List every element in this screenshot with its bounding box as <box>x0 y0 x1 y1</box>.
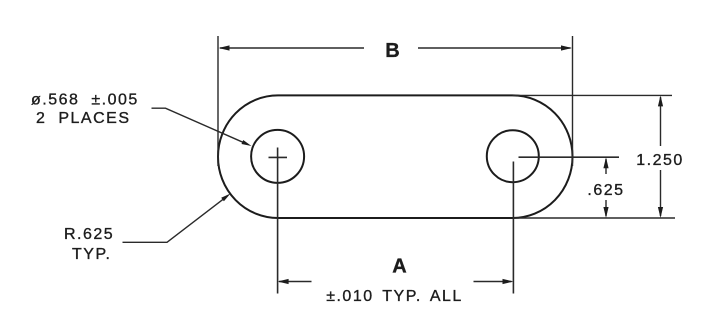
arrowhead leader radius <box>221 194 230 202</box>
hole right <box>487 130 539 182</box>
arrowhead B right <box>561 45 572 50</box>
svg-text:ø.568 ±.005: ø.568 ±.005 <box>31 92 139 109</box>
arrowhead 1.250 bottom <box>658 207 663 218</box>
left hole centerline horizontal <box>269 156 288 158</box>
dimension line B right segment <box>418 47 571 49</box>
svg-text:TYP.: TYP. <box>72 246 112 263</box>
arrowhead .625 top <box>603 157 608 168</box>
svg-text:1.250: 1.250 <box>636 152 684 169</box>
dimension line 1.250 upper segment <box>660 97 662 146</box>
svg-text:A: A <box>392 256 406 278</box>
arrowhead 1.250 top <box>658 95 663 106</box>
dimension line .625 upper segment <box>605 159 607 174</box>
arrowhead A right <box>503 279 514 284</box>
extension line bottom edge to 1.250 <box>513 217 676 219</box>
arrowhead B left <box>219 45 230 50</box>
arrowhead .625 bottom <box>603 207 608 218</box>
left hole centerline vertical <box>277 148 279 294</box>
dimension line A right segment <box>474 281 512 283</box>
leader radius label <box>123 197 227 242</box>
extension line top edge to 1.250 <box>513 94 673 96</box>
leader diameter label <box>152 108 244 142</box>
svg-text:B: B <box>385 40 399 62</box>
svg-text:±.010 TYP. ALL: ±.010 TYP. ALL <box>326 288 463 305</box>
right hole centerline vertical <box>512 162 514 294</box>
dimension line 1.250 lower segment <box>660 170 662 216</box>
arrowhead A left <box>278 279 289 284</box>
dimension line .625 lower segment <box>605 200 607 216</box>
arrowhead leader diameter <box>242 140 252 146</box>
plate outline <box>218 95 573 218</box>
dimension line A left segment <box>279 281 312 283</box>
dimension line B left segment <box>220 47 364 49</box>
right hole centerline horizontal <box>519 156 620 158</box>
hole left <box>251 130 304 183</box>
svg-text:2 PLACES: 2 PLACES <box>36 110 130 127</box>
extension line B left <box>217 36 219 166</box>
svg-text:R.625: R.625 <box>64 226 114 243</box>
extension line B right <box>572 36 574 166</box>
svg-text:.625: .625 <box>587 182 624 199</box>
